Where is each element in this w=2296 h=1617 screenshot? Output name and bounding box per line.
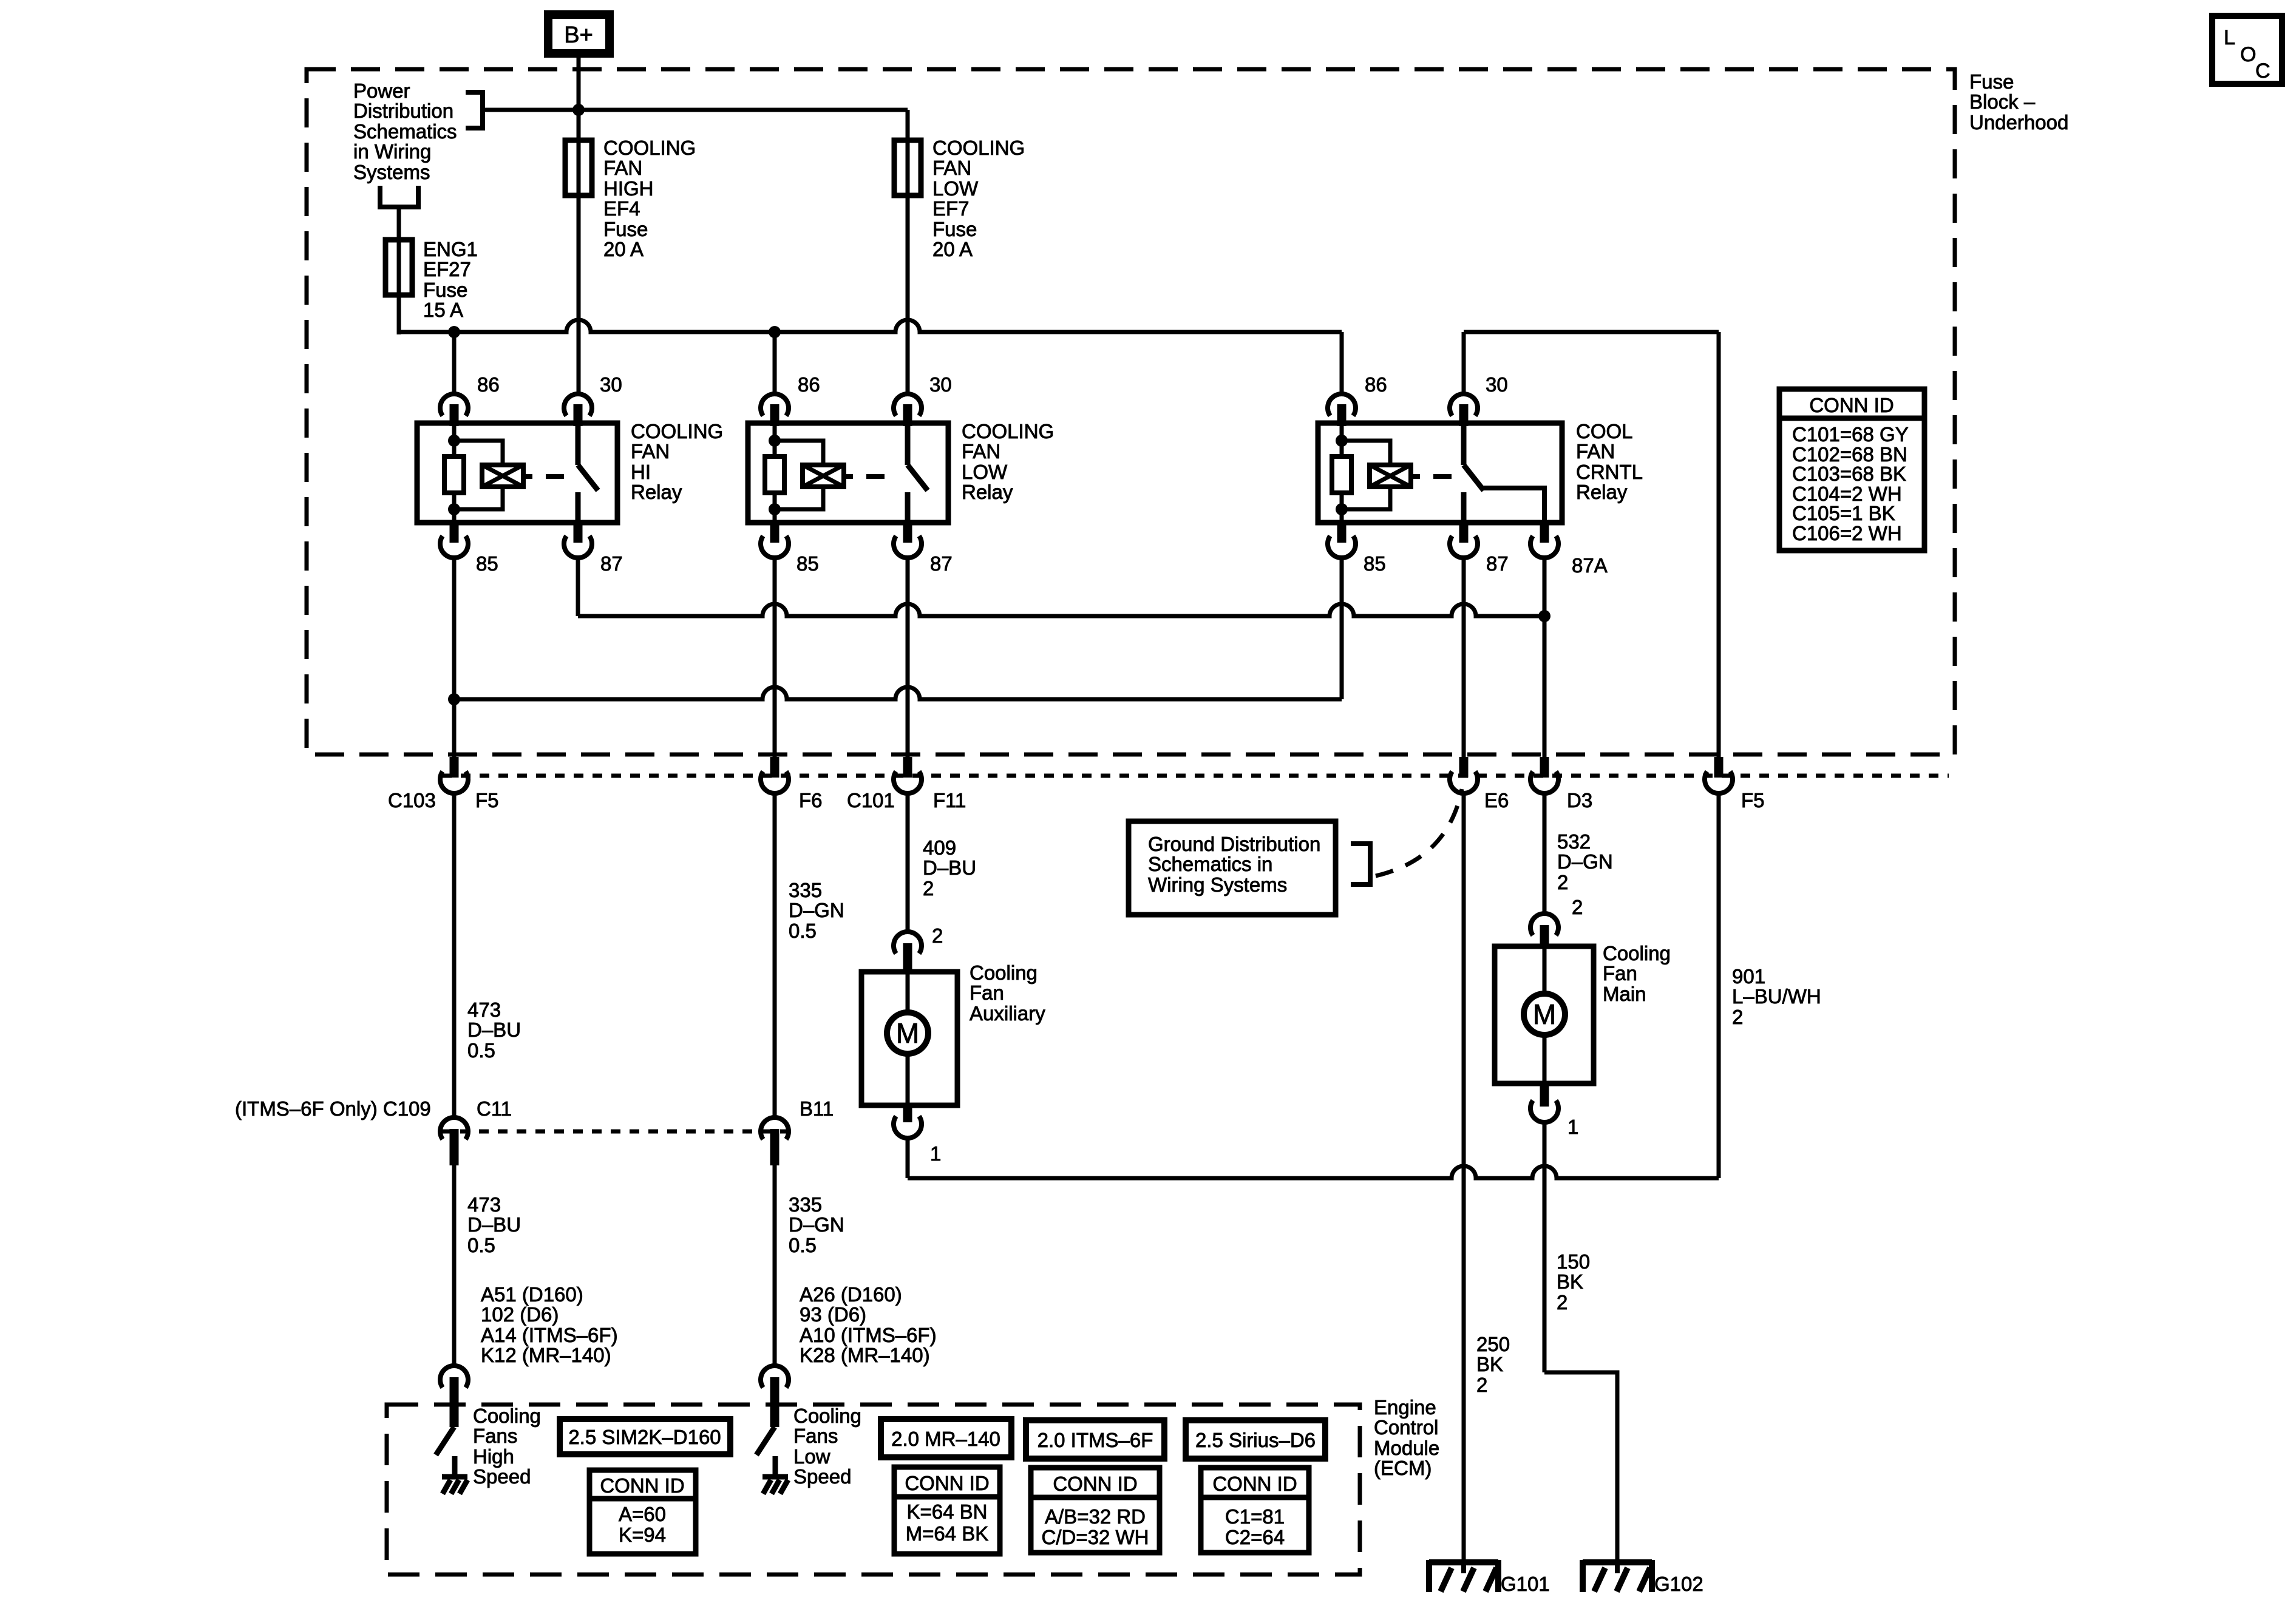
svg-text:C1=81: C1=81 <box>1225 1505 1285 1528</box>
wire G102 jog <box>1544 1372 1617 1565</box>
wire 901 vertical lower segment <box>1717 793 1721 1178</box>
relay coil <box>1370 465 1411 487</box>
svg-text:20 A: 20 A <box>603 238 644 260</box>
connector line dotted <box>442 774 1949 778</box>
svg-text:Fuse: Fuse <box>423 279 467 301</box>
wire 901 vertical upper segment <box>1717 332 1721 759</box>
svg-text:87A: 87A <box>1572 554 1608 577</box>
connector ECM input at x=748 <box>440 1366 468 1388</box>
relay coil branch wires <box>1342 441 1390 465</box>
svg-text:Cooling: Cooling <box>1603 942 1671 964</box>
wire relay 1 pin 87 to 87A bus <box>576 558 580 616</box>
relay coil branch wires <box>775 441 823 465</box>
relay pin 30 connector <box>1450 394 1478 416</box>
svg-text:15 A: 15 A <box>423 299 463 321</box>
svg-text:B+: B+ <box>564 22 593 48</box>
svg-text:COOLING: COOLING <box>603 137 696 159</box>
svg-text:C105=1 BK: C105=1 BK <box>1792 502 1895 524</box>
svg-text:C2=64: C2=64 <box>1225 1526 1285 1548</box>
svg-text:Schematics in: Schematics in <box>1148 853 1272 875</box>
CONN ID table MR-140 <box>894 1467 1000 1554</box>
svg-text:B11: B11 <box>800 1097 834 1120</box>
svg-text:M=64 BK: M=64 BK <box>906 1522 989 1545</box>
svg-text:85: 85 <box>476 552 498 575</box>
svg-text:2.5 SIM2K–D160: 2.5 SIM2K–D160 <box>568 1426 721 1448</box>
svg-text:FAN: FAN <box>962 440 1000 463</box>
LOC legend box <box>2209 13 2285 87</box>
wire relay 2 pin 86 drop <box>773 332 777 395</box>
svg-text:COOLING: COOLING <box>962 420 1054 442</box>
svg-text:30: 30 <box>600 373 622 396</box>
wire aux pin 1 down <box>906 1139 910 1178</box>
svg-text:A26 (D160): A26 (D160) <box>800 1283 902 1306</box>
callout box 2.5 Sirius-D6 <box>1186 1420 1325 1459</box>
svg-text:Fans: Fans <box>793 1425 838 1447</box>
svg-text:C/D=32 WH: C/D=32 WH <box>1042 1526 1149 1548</box>
svg-text:M: M <box>896 1017 919 1049</box>
svg-text:C103: C103 <box>388 789 436 812</box>
svg-text:86: 86 <box>798 373 820 396</box>
svg-text:FAN: FAN <box>1576 440 1615 463</box>
wire bus corner down to relay 3 pin 86 <box>1340 332 1344 395</box>
svg-text:A10 (ITMS–6F): A10 (ITMS–6F) <box>800 1324 937 1346</box>
svg-text:2: 2 <box>1732 1006 1743 1028</box>
relay pin 86 connector <box>440 394 468 416</box>
svg-text:2: 2 <box>1476 1374 1487 1396</box>
svg-text:COOL: COOL <box>1576 420 1633 442</box>
svg-text:EF27: EF27 <box>423 258 471 280</box>
relay resistor <box>452 426 457 456</box>
wire relay 2 pin 85 down to F6 <box>773 558 777 759</box>
svg-text:High: High <box>473 1445 514 1468</box>
svg-text:M: M <box>1533 998 1556 1030</box>
relay box COOL FAN CRNTL <box>1318 423 1562 523</box>
svg-text:Schematics: Schematics <box>353 120 457 143</box>
svg-text:Block –: Block – <box>1969 90 2036 113</box>
svg-text:93 (D6): 93 (D6) <box>800 1303 866 1326</box>
relay pin 87 connector <box>903 521 912 543</box>
svg-text:C106=2 WH: C106=2 WH <box>1792 522 1902 544</box>
svg-text:0.5: 0.5 <box>467 1234 495 1256</box>
svg-text:C103=68 BK: C103=68 BK <box>1792 463 1906 485</box>
svg-text:85: 85 <box>796 552 819 575</box>
svg-text:0.5: 0.5 <box>789 1234 817 1256</box>
motor Cooling Fan Main <box>1495 946 1594 1083</box>
svg-text:1: 1 <box>930 1142 941 1165</box>
relay box COOLING FAN HI <box>417 423 617 523</box>
svg-text:0.5: 0.5 <box>467 1039 495 1062</box>
wire relay 1 pin 85 down to C103 <box>452 558 457 759</box>
svg-text:901: 901 <box>1732 965 1765 988</box>
svg-text:Distribution: Distribution <box>353 100 453 122</box>
connector pass-through at x=2831 <box>1714 757 1724 778</box>
svg-text:L: L <box>2224 26 2235 49</box>
svg-text:O: O <box>2240 43 2256 66</box>
svg-text:G101: G101 <box>1501 1573 1550 1595</box>
node B+ junction <box>572 104 585 116</box>
svg-text:87: 87 <box>1486 552 1509 575</box>
wire relay 3 pin 30 drop <box>1462 332 1466 395</box>
wire bus ENG1 to relay coils 86 <box>399 320 1342 332</box>
relay 87A contact <box>1482 488 1544 521</box>
svg-text:FAN: FAN <box>932 157 971 179</box>
svg-text:D–BU: D–BU <box>467 1019 521 1041</box>
relay coil <box>482 465 523 487</box>
svg-text:(ITMS–6F Only) C109: (ITMS–6F Only) C109 <box>235 1097 431 1120</box>
svg-text:C: C <box>2255 59 2271 83</box>
svg-text:CONN ID: CONN ID <box>1212 1473 1297 1495</box>
wire 532 D-GN <box>1543 793 1547 913</box>
svg-text:K28 (MR–140): K28 (MR–140) <box>800 1344 930 1366</box>
ECM internal switch <box>756 1427 775 1455</box>
svg-text:473: 473 <box>467 1193 501 1216</box>
wire relay 3 pin 87 down to E6 <box>1462 558 1466 759</box>
connector pin 1 aux <box>903 1103 912 1122</box>
svg-text:K12 (MR–140): K12 (MR–140) <box>481 1344 611 1366</box>
connector pin 1 main <box>1540 1082 1549 1107</box>
wire power distribution feed horizontal <box>483 108 908 112</box>
svg-text:532: 532 <box>1557 830 1591 853</box>
svg-text:BK: BK <box>1557 1270 1583 1293</box>
svg-text:COOLING: COOLING <box>932 137 1025 159</box>
relay pin 85 connector <box>1337 521 1347 543</box>
connector pin 2 aux <box>894 932 922 954</box>
svg-text:2: 2 <box>1557 871 1568 893</box>
relay coil <box>803 465 844 487</box>
svg-text:335: 335 <box>789 879 822 901</box>
svg-text:150: 150 <box>1557 1250 1590 1273</box>
relay pin 86 connector <box>761 394 789 416</box>
wire relay 2 pin 87 down to C101 F11 <box>906 558 910 759</box>
svg-text:0.5: 0.5 <box>789 920 817 942</box>
wire 335 D-GN lower <box>773 1165 777 1366</box>
node junction at (1276,547) <box>769 326 781 338</box>
svg-text:Underhood: Underhood <box>1969 111 2068 134</box>
wire 409 D-BU <box>906 793 910 931</box>
svg-text:2.0 MR–140: 2.0 MR–140 <box>891 1428 1000 1450</box>
svg-text:30: 30 <box>1486 373 1508 396</box>
ECM dashed border <box>387 1405 1360 1575</box>
svg-text:Low: Low <box>793 1445 830 1468</box>
svg-text:Cooling: Cooling <box>793 1405 861 1427</box>
callout box 2.5 SIM2K-D160 <box>560 1419 730 1454</box>
svg-text:D–GN: D–GN <box>789 899 844 921</box>
svg-text:Fuse: Fuse <box>932 218 977 240</box>
CONN ID table <box>1779 389 1924 551</box>
svg-text:C101=68 GY: C101=68 GY <box>1792 423 1909 446</box>
svg-text:F11: F11 <box>933 789 966 812</box>
svg-text:Main: Main <box>1603 983 1646 1005</box>
svg-text:Cooling: Cooling <box>970 961 1038 984</box>
wire relay 3 pin 30 feed horizontal <box>1464 330 1719 334</box>
svg-text:in Wiring: in Wiring <box>353 140 431 163</box>
svg-text:2.0 ITMS–6F: 2.0 ITMS–6F <box>1038 1429 1153 1451</box>
svg-text:87: 87 <box>930 552 953 575</box>
wire E6 down to G101 <box>1462 793 1466 1565</box>
connector pass-through at x=2544 <box>1540 757 1549 778</box>
svg-text:D–BU: D–BU <box>923 856 976 879</box>
power distribution bracket <box>466 90 483 95</box>
svg-text:HIGH: HIGH <box>603 177 654 200</box>
svg-text:Ground Distribution: Ground Distribution <box>1148 833 1320 855</box>
svg-text:E6: E6 <box>1484 789 1509 812</box>
svg-text:K=94: K=94 <box>619 1524 666 1546</box>
relay pin 85 connector <box>450 521 459 543</box>
ECM internal switch <box>436 1427 454 1455</box>
svg-text:LOW: LOW <box>932 177 979 200</box>
node junction at (748,547) <box>448 326 460 338</box>
svg-text:409: 409 <box>923 836 956 859</box>
relay switch <box>905 426 911 465</box>
connector pin 2 main <box>1530 914 1558 935</box>
relay switch <box>1461 426 1467 465</box>
svg-text:Fuse: Fuse <box>1969 70 2014 93</box>
CONN ID table SIM2K <box>589 1470 696 1554</box>
relay resistor <box>1340 426 1344 456</box>
svg-text:LOW: LOW <box>962 461 1008 483</box>
wire relay 1 pin 86 drop <box>452 332 457 395</box>
svg-text:L–BU/WH: L–BU/WH <box>1732 985 1821 1008</box>
fuse block underhood dashed border <box>307 69 1955 754</box>
fuse COOLING FAN HIGH EF4 20A <box>577 140 581 195</box>
svg-text:2: 2 <box>923 877 934 900</box>
relay pin 87 connector <box>574 521 583 543</box>
ground distribution dashed pointer <box>1376 789 1462 876</box>
wire EF4 fuse to relay 1 pin 30 <box>577 195 581 395</box>
svg-text:BK: BK <box>1476 1353 1503 1375</box>
relay pin 30 connector <box>894 394 922 416</box>
svg-text:473: 473 <box>467 998 501 1021</box>
battery B+ terminal box <box>544 10 614 58</box>
svg-text:A14 (ITMS–6F): A14 (ITMS–6F) <box>481 1324 618 1346</box>
svg-text:20 A: 20 A <box>932 238 973 260</box>
wire bottom return bus <box>908 1166 1719 1178</box>
svg-text:Relay: Relay <box>962 481 1013 503</box>
svg-text:A51 (D160): A51 (D160) <box>481 1283 583 1306</box>
svg-text:102 (D6): 102 (D6) <box>481 1303 559 1326</box>
svg-text:Power: Power <box>353 80 410 102</box>
ECM internal ground <box>763 1474 788 1480</box>
svg-text:HI: HI <box>631 461 651 483</box>
fuse COOLING FAN LOW EF7 20A <box>906 140 910 195</box>
svg-text:FAN: FAN <box>631 440 670 463</box>
svg-text:86: 86 <box>477 373 500 396</box>
wire ENG1 fuse to bus <box>397 295 401 334</box>
svg-text:2: 2 <box>932 924 943 947</box>
svg-text:CONN ID: CONN ID <box>600 1474 684 1497</box>
svg-text:86: 86 <box>1365 373 1387 396</box>
relay box COOLING FAN LOW <box>748 423 948 523</box>
svg-text:30: 30 <box>929 373 952 396</box>
connector B11 at C109 <box>761 1117 789 1139</box>
relay pin 85 connector <box>770 521 779 543</box>
svg-text:2: 2 <box>1572 896 1583 918</box>
svg-text:F6: F6 <box>799 789 823 812</box>
connector C11 at C109 <box>440 1117 468 1139</box>
svg-text:EF4: EF4 <box>603 197 640 220</box>
connector pass-through at x=2411 <box>1459 757 1469 778</box>
svg-text:F5: F5 <box>475 789 499 812</box>
svg-text:D–BU: D–BU <box>467 1213 521 1236</box>
svg-text:G102: G102 <box>1654 1573 1703 1595</box>
svg-text:Cooling: Cooling <box>473 1405 541 1427</box>
connector C109 dotted line <box>441 1130 787 1134</box>
svg-text:Relay: Relay <box>631 481 682 503</box>
ECM internal ground <box>442 1474 467 1480</box>
wire 473 D-BU lower <box>452 1165 457 1366</box>
wire 85 bus to relay 3 pin 85 <box>454 687 1342 699</box>
svg-text:Wiring Systems: Wiring Systems <box>1148 873 1287 896</box>
relay pin 87A connector <box>1540 521 1549 543</box>
relay pin 86 connector <box>1328 394 1356 416</box>
svg-text:(ECM): (ECM) <box>1374 1457 1432 1479</box>
svg-text:1: 1 <box>1567 1116 1578 1138</box>
svg-text:A=60: A=60 <box>619 1503 666 1525</box>
ground G102 <box>1583 1559 1652 1565</box>
relay resistor <box>773 426 777 456</box>
svg-text:D–GN: D–GN <box>1557 850 1613 873</box>
svg-text:CRNTL: CRNTL <box>1576 461 1643 483</box>
wire EF7 feed down <box>906 110 910 140</box>
wire EF7 fuse to relay 2 pin 30 <box>906 195 910 395</box>
node junction 85 bus <box>448 693 460 705</box>
svg-text:D3: D3 <box>1567 789 1592 812</box>
node 87A bus junction <box>1538 610 1550 622</box>
wire relay 3 pin 87A down to D3 <box>1543 558 1547 759</box>
relay actuation dashed link <box>546 474 564 479</box>
relay pin 87 connector <box>1459 521 1469 543</box>
ground distribution bracket <box>1351 841 1370 846</box>
svg-text:CONN ID: CONN ID <box>1809 394 1894 416</box>
svg-text:Module: Module <box>1374 1437 1439 1459</box>
svg-text:FAN: FAN <box>603 157 642 179</box>
relay actuation dashed link <box>866 474 885 479</box>
svg-text:Engine: Engine <box>1374 1396 1436 1419</box>
svg-text:2.5 Sirius–D6: 2.5 Sirius–D6 <box>1195 1429 1316 1451</box>
svg-text:Control: Control <box>1374 1416 1438 1439</box>
svg-text:Relay: Relay <box>1576 481 1628 503</box>
svg-text:COOLING: COOLING <box>631 420 723 442</box>
callout box 2.0 MR-140 <box>881 1419 1011 1457</box>
svg-text:CONN ID: CONN ID <box>1053 1473 1137 1495</box>
relay coil branch wires <box>454 441 503 465</box>
connector pass-through at x=748 <box>450 757 459 778</box>
CONN ID table ITMS-6F <box>1031 1468 1160 1553</box>
fuse ENG1 EF27 15A <box>397 240 401 295</box>
svg-text:Auxiliary: Auxiliary <box>970 1002 1045 1025</box>
svg-text:Speed: Speed <box>473 1465 531 1488</box>
wire 473 D-BU upper <box>452 793 457 1117</box>
connector ECM input at x=1276 <box>761 1366 789 1388</box>
svg-text:K=64 BN: K=64 BN <box>907 1500 988 1523</box>
svg-text:2: 2 <box>1557 1291 1567 1314</box>
CONN ID table Sirius-D6 <box>1201 1468 1309 1553</box>
svg-text:EF7: EF7 <box>932 197 970 220</box>
connector pass-through at x=1495 <box>903 757 912 778</box>
svg-text:87: 87 <box>600 552 623 575</box>
svg-text:F5: F5 <box>1741 789 1765 812</box>
svg-text:C11: C11 <box>477 1097 512 1120</box>
svg-text:Fans: Fans <box>473 1425 517 1447</box>
svg-text:A/B=32 RD: A/B=32 RD <box>1045 1505 1146 1528</box>
Ground Distribution reference box <box>1129 821 1336 915</box>
connector pass-through at x=1276 <box>770 757 779 778</box>
motor Cooling Fan Auxiliary <box>861 972 957 1105</box>
wire B+ down <box>577 58 581 140</box>
svg-text:250: 250 <box>1476 1333 1510 1355</box>
relay actuation dashed link <box>1433 474 1452 479</box>
svg-text:85: 85 <box>1364 552 1386 575</box>
svg-text:C101: C101 <box>847 789 895 812</box>
svg-text:CONN ID: CONN ID <box>905 1472 989 1494</box>
wire main pin 1 down to G102 jog <box>1543 1123 1547 1372</box>
callout box 2.0 ITMS-6F <box>1026 1420 1164 1459</box>
wire 335 D-GN upper <box>773 793 777 1117</box>
svg-text:335: 335 <box>789 1193 822 1216</box>
svg-text:D–GN: D–GN <box>789 1213 844 1236</box>
svg-text:Fuse: Fuse <box>603 218 648 240</box>
svg-text:Systems: Systems <box>353 161 430 183</box>
svg-text:Speed: Speed <box>793 1465 851 1488</box>
ground G101 <box>1429 1559 1498 1565</box>
svg-text:Fan: Fan <box>970 981 1004 1004</box>
bracket under Systems <box>378 186 382 207</box>
relay pin 30 connector <box>564 394 592 416</box>
relay switch <box>576 426 581 465</box>
wire Systems bracket to ENG1 fuse <box>397 207 401 240</box>
svg-text:ENG1: ENG1 <box>423 238 478 260</box>
svg-text:Fan: Fan <box>1603 962 1637 985</box>
